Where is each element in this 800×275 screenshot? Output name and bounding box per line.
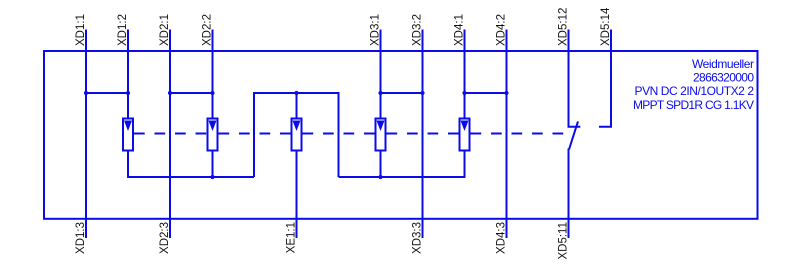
svg-text:XD4:2: XD4:2	[496, 14, 508, 46]
svg-text:XD4:1: XD4:1	[454, 14, 466, 46]
svg-text:XD1:3: XD1:3	[75, 222, 87, 254]
svg-text:XD5:11: XD5:11	[558, 222, 570, 260]
svg-text:XE1:1: XE1:1	[286, 222, 298, 253]
svg-text:XD2:3: XD2:3	[159, 222, 171, 254]
svg-text:XD1:2: XD1:2	[117, 14, 129, 46]
svg-text:XD1:1: XD1:1	[75, 14, 87, 46]
svg-text:PVN DC 2IN/1OUTX2 2: PVN DC 2IN/1OUTX2 2	[635, 84, 755, 98]
svg-text:XD4:3: XD4:3	[496, 222, 508, 254]
svg-text:XD3:1: XD3:1	[370, 14, 382, 46]
svg-text:MPPT SPD1R CG 1.1KV: MPPT SPD1R CG 1.1KV	[633, 98, 754, 112]
svg-text:XD2:2: XD2:2	[202, 14, 214, 46]
svg-text:Weidmueller: Weidmueller	[692, 57, 754, 71]
svg-text:2866320000: 2866320000	[693, 70, 754, 84]
svg-text:XD5:12: XD5:12	[558, 8, 570, 46]
svg-text:XD5:14: XD5:14	[600, 7, 612, 46]
svg-text:XD3:3: XD3:3	[412, 222, 424, 254]
svg-text:XD2:1: XD2:1	[159, 14, 171, 46]
svg-text:XD3:2: XD3:2	[412, 14, 424, 46]
